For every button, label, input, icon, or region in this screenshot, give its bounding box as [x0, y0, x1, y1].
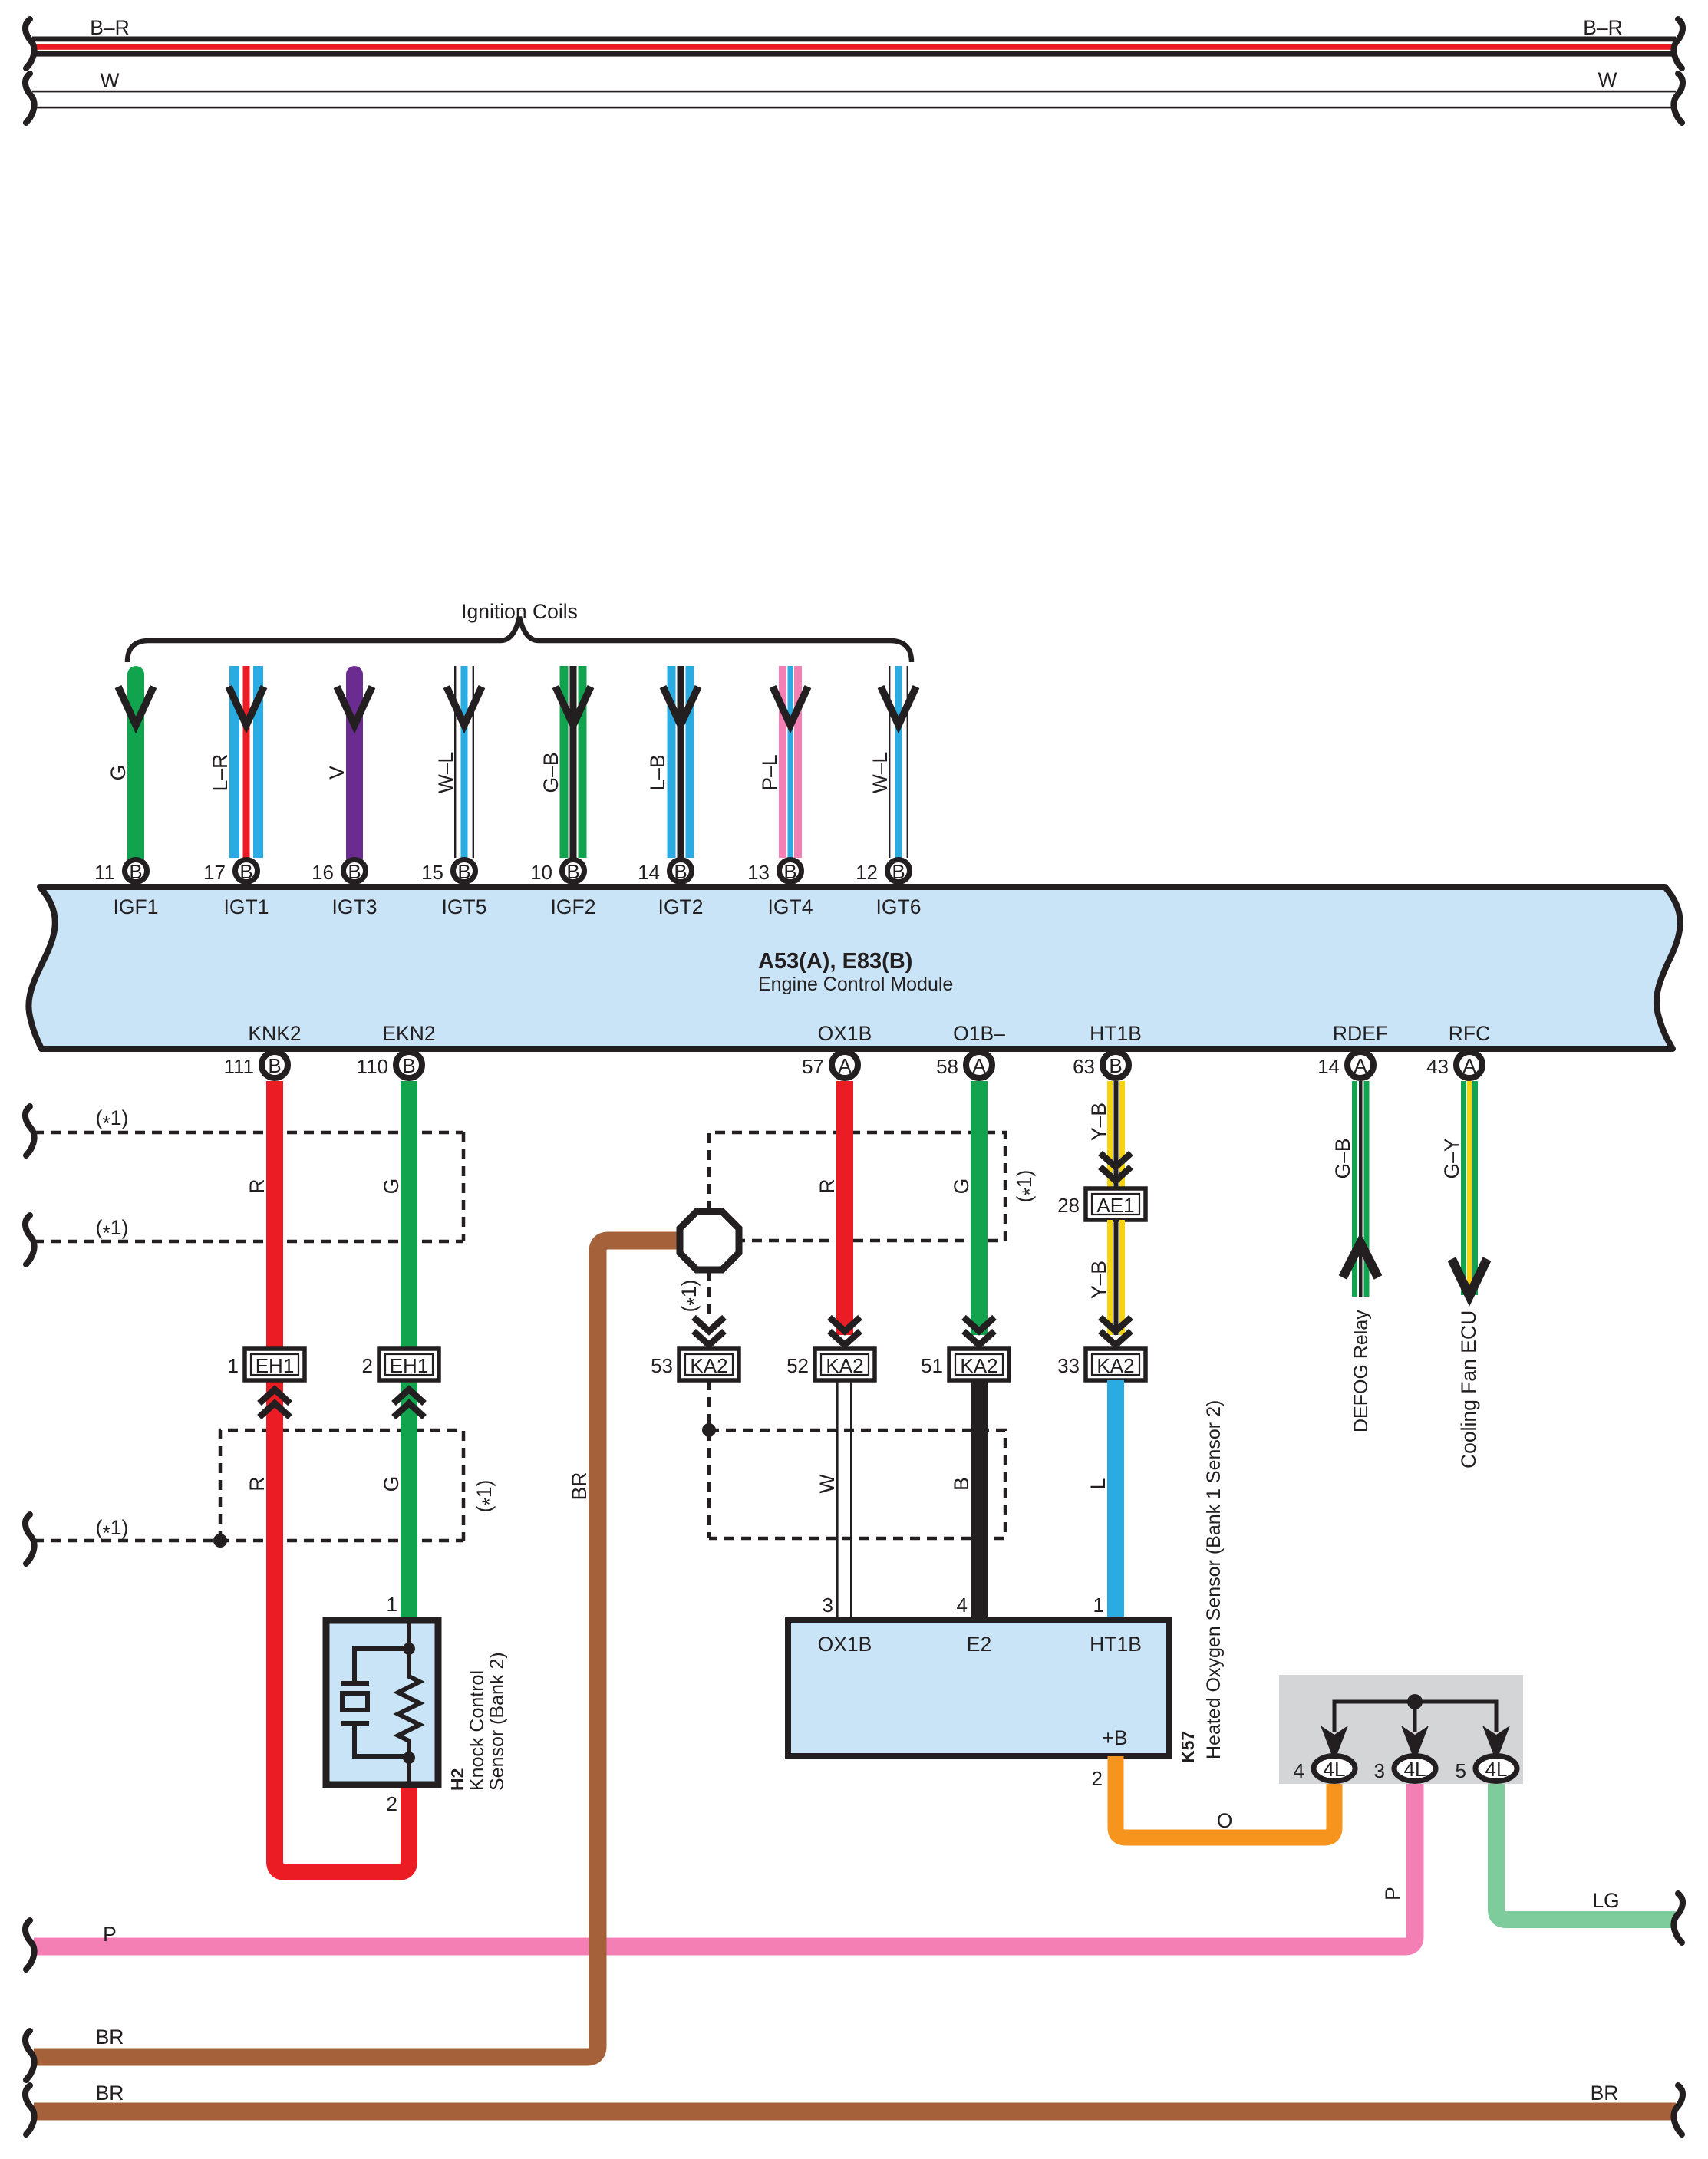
- wire BR brown from octagon to left edge: [34, 1241, 681, 2057]
- svg-text:1: 1: [228, 1354, 239, 1377]
- svg-text:P–L: P–L: [758, 754, 781, 790]
- svg-text:K57: K57: [1178, 1731, 1198, 1763]
- break symbol P left: [25, 1920, 35, 1969]
- wire V to IGT3 coil: [346, 674, 363, 858]
- svg-text:KA2: KA2: [960, 1354, 997, 1377]
- break symbol note line 3: [25, 1515, 35, 1564]
- svg-text:A: A: [1462, 1054, 1476, 1077]
- svg-text:LG: LG: [1592, 1889, 1619, 1912]
- svg-text:B–R: B–R: [1583, 16, 1623, 39]
- svg-text:16: 16: [312, 861, 334, 884]
- break symbol W left: [25, 74, 35, 123]
- connector 53 KA2: [651, 1349, 739, 1380]
- svg-text:BR: BR: [96, 2082, 124, 2105]
- svg-text:E2: E2: [967, 1633, 991, 1656]
- svg-text:43: 43: [1426, 1055, 1449, 1078]
- svg-text:KA2: KA2: [826, 1354, 863, 1377]
- svg-text:RDEF: RDEF: [1333, 1022, 1388, 1045]
- connector 33 KA2: [1057, 1349, 1146, 1380]
- svg-text:IGT3: IGT3: [332, 895, 378, 918]
- svg-text:O1B–: O1B–: [953, 1022, 1005, 1045]
- connector 15 B pin IGT5: [421, 860, 475, 885]
- svg-text:B–R: B–R: [90, 16, 130, 39]
- wire Y-B from HT1B to 28 AE1: [1107, 1081, 1125, 1188]
- svg-text:BR: BR: [96, 2026, 124, 2049]
- wire G-Y from RFC: [1461, 1081, 1478, 1295]
- svg-text:A: A: [838, 1054, 852, 1077]
- svg-text:R: R: [816, 1178, 839, 1193]
- wire BR bottom bus: [34, 2103, 1676, 2121]
- svg-text:12: 12: [856, 861, 878, 884]
- connector 5 4L: [1456, 1756, 1517, 1783]
- svg-text:4L: 4L: [1404, 1758, 1426, 1781]
- svg-text:15: 15: [421, 861, 443, 884]
- connector 63 B pin HT1B: [1073, 1052, 1129, 1078]
- junction dot 4L block: [1407, 1694, 1423, 1709]
- svg-text:KA2: KA2: [690, 1354, 727, 1377]
- arrow down above 28 AE1: [1100, 1153, 1131, 1181]
- svg-text:EKN2: EKN2: [382, 1022, 435, 1045]
- wire L-R to IGT1 coil: [229, 666, 263, 858]
- svg-text:110: 110: [357, 1055, 388, 1078]
- break symbol W right: [1673, 74, 1683, 123]
- gray connector block 4L: [1279, 1675, 1523, 1784]
- svg-text:B: B: [239, 860, 252, 883]
- svg-text:Y–B: Y–B: [1087, 1103, 1110, 1141]
- svg-text:R: R: [246, 1178, 269, 1193]
- K57 heated oxygen sensor box: [788, 1620, 1169, 1756]
- connector 51 KA2: [921, 1349, 1009, 1380]
- wire B-R top bus: [32, 37, 1676, 57]
- arrow up below 1 EH1: [259, 1389, 290, 1417]
- connector 111 B pin KNK2: [223, 1052, 288, 1078]
- capacitor branch wire: [354, 1649, 409, 1756]
- svg-text:OX1B: OX1B: [818, 1633, 872, 1656]
- knock sensor internal wire top: [407, 1623, 411, 1647]
- svg-text:G: G: [950, 1178, 973, 1195]
- break symbol note line 1: [25, 1106, 35, 1155]
- arrow on wire P-L: [773, 687, 808, 725]
- svg-text:DEFOG Relay: DEFOG Relay: [1350, 1310, 1372, 1432]
- svg-text:B: B: [892, 860, 905, 883]
- arrow on wire W-L: [881, 687, 916, 725]
- bus line inside 4L block: [1334, 1702, 1496, 1732]
- svg-text:G: G: [380, 1476, 403, 1492]
- connector 14 A pin RDEF: [1317, 1052, 1373, 1078]
- svg-text:4L: 4L: [1485, 1758, 1508, 1781]
- svg-text:W: W: [100, 69, 119, 92]
- svg-text:B: B: [129, 860, 142, 883]
- svg-text:EH1: EH1: [390, 1354, 429, 1377]
- svg-text:L–B: L–B: [646, 754, 669, 790]
- svg-text:IGT2: IGT2: [658, 895, 704, 918]
- arrow on wire L-B: [663, 687, 698, 725]
- connector 10 B pin IGF2: [530, 860, 584, 885]
- connector 3 4L: [1374, 1756, 1436, 1783]
- connector 43 A pin RFC: [1426, 1052, 1482, 1078]
- junction dot bottom: [403, 1752, 415, 1764]
- svg-text:IGT5: IGT5: [442, 895, 487, 918]
- svg-text:Y–B: Y–B: [1087, 1261, 1110, 1299]
- svg-text:W–L: W–L: [869, 752, 892, 794]
- wire LG from 4L pin 5 to right edge: [1496, 1782, 1676, 1920]
- svg-text:B: B: [1109, 1054, 1122, 1077]
- svg-text:A: A: [1354, 1054, 1367, 1077]
- svg-text:AE1: AE1: [1096, 1194, 1134, 1217]
- svg-text:W: W: [816, 1474, 839, 1493]
- arrow on wire G-B: [556, 687, 591, 725]
- svg-text:3: 3: [823, 1594, 833, 1617]
- wire W-L to IGT6 coil: [889, 666, 908, 858]
- svg-text:P: P: [103, 1923, 117, 1946]
- note dashed vertical below octagon: [707, 1271, 711, 1315]
- wire O orange from +B pin 2 to 4L pin 4: [1116, 1756, 1334, 1838]
- note dashed box lower middle: [709, 1430, 1005, 1538]
- break symbol B-R right: [1673, 19, 1683, 68]
- svg-text:OX1B: OX1B: [818, 1022, 872, 1045]
- connector 57 A pin OX1B: [802, 1052, 858, 1078]
- svg-text:5: 5: [1456, 1759, 1466, 1782]
- connector 28 AE1: [1057, 1188, 1146, 1220]
- svg-text:111: 111: [223, 1055, 254, 1078]
- wire P-L to IGT4 coil: [779, 666, 802, 858]
- svg-text:IGT4: IGT4: [768, 895, 813, 918]
- note dashed box upper middle: [709, 1132, 1005, 1241]
- break symbol BR bus right: [1673, 2085, 1683, 2134]
- ECM block A53(A) E83(B): [28, 887, 1680, 1049]
- break symbol BR elbow left: [25, 2031, 35, 2080]
- svg-text:G: G: [380, 1178, 403, 1195]
- svg-text:B: B: [566, 860, 579, 883]
- arrow down on G-Y wire: [1452, 1259, 1487, 1296]
- svg-text:52: 52: [786, 1354, 809, 1377]
- svg-text:B: B: [268, 1054, 281, 1077]
- svg-text:O: O: [1217, 1809, 1233, 1832]
- wire G from EKN2 to knock sensor pin 1: [401, 1081, 417, 1623]
- junction dot top: [403, 1643, 415, 1655]
- arrow down above 53 KA2: [694, 1317, 724, 1345]
- svg-text:3: 3: [1374, 1759, 1385, 1782]
- svg-text:P: P: [1381, 1887, 1404, 1900]
- connector 14 B pin IGT2: [638, 860, 691, 885]
- svg-text:14: 14: [1317, 1055, 1340, 1078]
- svg-text:63: 63: [1073, 1055, 1095, 1078]
- knock sensor internal wire bottom: [407, 1758, 411, 1782]
- wire W-L to IGT5 coil: [454, 666, 474, 858]
- arrow into 4L pin 3: [1401, 1726, 1429, 1762]
- svg-text:L–R: L–R: [209, 754, 232, 792]
- arrow up below 2 EH1: [394, 1389, 424, 1417]
- svg-text:Heated Oxygen Sensor (Bank 1 S: Heated Oxygen Sensor (Bank 1 Sensor 2): [1203, 1400, 1225, 1759]
- connector 1 EH1: [228, 1349, 305, 1380]
- svg-text:G: G: [107, 765, 130, 781]
- junction dot dashed x924: [702, 1423, 716, 1437]
- break symbol B-R left: [25, 19, 35, 68]
- svg-text:Engine Control Module: Engine Control Module: [758, 974, 953, 995]
- svg-text:A: A: [972, 1054, 986, 1077]
- arrow on wire W-L: [447, 687, 482, 725]
- resistor inside knock sensor: [398, 1649, 420, 1758]
- wire R from OX1B to 52 KA2: [836, 1081, 853, 1335]
- note (*1) dashed line 3: [34, 1539, 463, 1543]
- svg-text:33: 33: [1057, 1354, 1080, 1377]
- wire L-B to IGT2 coil: [668, 666, 694, 858]
- svg-text:G–B: G–B: [1331, 1138, 1354, 1178]
- svg-text:B: B: [674, 860, 687, 883]
- svg-text:Cooling Fan ECU: Cooling Fan ECU: [1457, 1310, 1480, 1468]
- connector 52 KA2: [786, 1349, 875, 1380]
- svg-text:10: 10: [530, 861, 552, 884]
- svg-text:IGF1: IGF1: [114, 895, 159, 918]
- svg-text:HT1B: HT1B: [1090, 1633, 1142, 1656]
- arrow down above 33 KA2: [1100, 1317, 1131, 1345]
- svg-text:B: B: [950, 1477, 973, 1491]
- connector 58 A pin O1B-: [936, 1052, 992, 1078]
- svg-text:G–B: G–B: [539, 752, 562, 793]
- svg-text:Sensor (Bank 2): Sensor (Bank 2): [486, 1652, 508, 1791]
- piezo element rectangle: [342, 1693, 368, 1710]
- arrow on wire V: [337, 687, 372, 725]
- svg-text:17: 17: [203, 861, 226, 884]
- wire P pink from 4L pin 3 to left edge: [34, 1782, 1415, 1946]
- svg-text:51: 51: [921, 1354, 943, 1377]
- svg-text:V: V: [325, 766, 348, 780]
- svg-text:IGT1: IGT1: [224, 895, 269, 918]
- arrow on wire G: [118, 687, 153, 725]
- break symbol LG right: [1673, 1894, 1683, 1943]
- connector 17 B pin IGT1: [203, 860, 257, 885]
- svg-text:2: 2: [1092, 1767, 1103, 1790]
- svg-text:58: 58: [936, 1055, 958, 1078]
- wire G-B to IGF2 coil: [560, 666, 587, 858]
- wire Y-B from 28 AE1 to 33 KA2: [1107, 1220, 1125, 1335]
- octagon junction: [680, 1211, 739, 1270]
- arrow down above 52 KA2: [829, 1317, 860, 1345]
- note (*1) dashed line 1: [34, 1131, 463, 1135]
- note dashed vertical below 53 KA2 with junction: [707, 1380, 711, 1538]
- brace Ignition Coils: [127, 617, 912, 662]
- connector 4 4L: [1294, 1756, 1355, 1783]
- arrow into 4L pin 4: [1321, 1726, 1348, 1762]
- svg-text:2: 2: [362, 1354, 373, 1377]
- svg-text:KNK2: KNK2: [248, 1022, 301, 1045]
- connector 2 EH1: [362, 1349, 439, 1380]
- connector 12 B pin IGT6: [856, 860, 909, 885]
- junction dot on note line 3: [213, 1534, 227, 1548]
- knock sensor H2 box: [326, 1620, 438, 1785]
- svg-text:EH1: EH1: [256, 1354, 295, 1377]
- svg-text:A53(A), E83(B): A53(A), E83(B): [758, 949, 912, 974]
- wire G-B from RDEF: [1352, 1081, 1370, 1297]
- connector 110 B pin EKN2: [357, 1052, 422, 1078]
- wire B from 51 KA2 to K57 pin 4: [971, 1380, 988, 1623]
- svg-text:11: 11: [94, 861, 115, 884]
- break symbol note line 2: [25, 1215, 35, 1264]
- svg-text:BR: BR: [1591, 2082, 1619, 2105]
- svg-text:W–L: W–L: [434, 752, 457, 794]
- svg-text:13: 13: [747, 861, 770, 884]
- note dashed right edge x604: [462, 1132, 466, 1241]
- connector 16 B pin IGT3: [312, 860, 365, 885]
- svg-text:14: 14: [638, 861, 660, 884]
- svg-text:+B: +B: [1102, 1726, 1127, 1749]
- svg-text:IGT6: IGT6: [876, 895, 922, 918]
- wire W thin from 52 KA2 to K57 pin 3: [836, 1380, 852, 1623]
- svg-text:4: 4: [1294, 1759, 1304, 1782]
- note (*1) dashed line 2: [34, 1240, 463, 1244]
- svg-text:H2: H2: [447, 1768, 467, 1791]
- svg-text:Knock Control: Knock Control: [467, 1670, 488, 1791]
- wire L from 33 KA2 to K57 pin 1: [1107, 1380, 1124, 1623]
- svg-text:L: L: [1086, 1478, 1110, 1490]
- svg-text:53: 53: [651, 1354, 673, 1377]
- break symbol BR bus left: [25, 2085, 35, 2134]
- wire G to IGF1 coil: [127, 674, 144, 858]
- connector 11 B pin IGF1: [94, 860, 147, 885]
- svg-text:1: 1: [387, 1593, 397, 1616]
- svg-text:B: B: [783, 860, 796, 883]
- svg-text:57: 57: [802, 1055, 824, 1078]
- capacitor plate top: [341, 1681, 369, 1686]
- note dashed box around R G lower: [220, 1430, 463, 1541]
- svg-text:B: B: [348, 860, 361, 883]
- svg-text:28: 28: [1057, 1194, 1080, 1217]
- wire G from O1B- to 51 KA2: [971, 1081, 988, 1335]
- svg-text:RFC: RFC: [1449, 1022, 1490, 1045]
- svg-text:B: B: [402, 1054, 415, 1077]
- svg-text:1: 1: [1093, 1594, 1104, 1617]
- arrow into 4L pin 5: [1482, 1726, 1510, 1762]
- svg-text:G–Y: G–Y: [1440, 1138, 1463, 1178]
- arrow down above 51 KA2: [964, 1317, 994, 1345]
- svg-text:W: W: [1598, 68, 1617, 91]
- svg-text:4L: 4L: [1324, 1758, 1346, 1781]
- wire R from KNK2 to knock sensor pin 2: [275, 1081, 409, 1872]
- svg-text:B: B: [457, 860, 470, 883]
- svg-text:BR: BR: [568, 1472, 591, 1501]
- svg-text:IGF2: IGF2: [551, 895, 596, 918]
- svg-text:HT1B: HT1B: [1090, 1022, 1142, 1045]
- svg-text:R: R: [246, 1476, 269, 1491]
- capacitor plate bottom: [341, 1721, 369, 1726]
- arrow on wire L-R: [229, 687, 264, 725]
- svg-text:4: 4: [957, 1594, 968, 1617]
- wire W bus: [32, 91, 1676, 109]
- svg-text:2: 2: [387, 1792, 397, 1815]
- svg-text:KA2: KA2: [1096, 1354, 1134, 1377]
- arrow up on G-B wire: [1343, 1243, 1378, 1277]
- connector 13 B pin IGT4: [747, 860, 801, 885]
